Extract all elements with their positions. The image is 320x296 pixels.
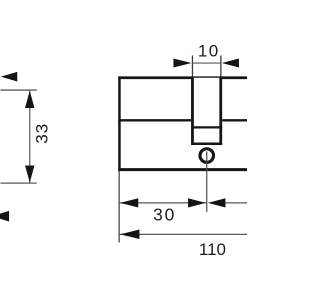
dimension 110: left arrowhead (points left): [120, 230, 140, 239]
next dimension to the right of center line: arrowhead (points left): [208, 198, 226, 207]
dimension 33: top extension tick: [0, 89, 36, 91]
clipped arrowhead at bottom-left edge (points left): [0, 211, 9, 222]
dimension 10: left arrowhead (points right): [173, 59, 191, 68]
svg-text:30: 30: [153, 204, 176, 224]
cam housing rectangle: [191, 76, 222, 144]
dimension 30: right arrowhead (points right): [188, 198, 206, 207]
next dimension: line running off right edge: [225, 202, 247, 204]
body-left extension line below body: [118, 171, 120, 243]
dimension 30: left arrowhead (points left): [120, 198, 138, 207]
dimension 10: right arrowhead (points left): [222, 59, 239, 68]
dimension 30: dimension line: [119, 202, 206, 204]
svg-text:110: 110: [199, 240, 226, 259]
dimension 33: top arrowhead (points up): [25, 91, 34, 108]
cylinder body mid parting line (left of cam): [118, 119, 191, 121]
cam internal step line: [191, 126, 222, 128]
svg-text:10: 10: [198, 41, 220, 60]
dimension 33: bottom arrowhead (points down): [25, 165, 34, 182]
svg-text:33: 33: [33, 123, 52, 144]
dimension 10: dimension line: [192, 62, 220, 64]
dimension 10: right extension line: [220, 55, 222, 76]
dimension 10: left extension line: [191, 55, 193, 76]
mounting screw hole: [200, 149, 214, 163]
dimension 33: vertical dimension line: [29, 91, 31, 183]
cylinder body left edge: [118, 76, 121, 171]
dimension 33: bottom extension tick: [0, 182, 36, 184]
dimension 110: dimension line running off right edge: [119, 233, 247, 235]
cylinder body bottom edge: [118, 168, 247, 171]
cylinder body mid parting line (right of cam): [222, 119, 247, 121]
clipped arrowhead at top-left edge (points left): [1, 72, 18, 82]
cylinder body top edge: [118, 76, 247, 79]
hole vertical center line: [206, 151, 208, 212]
